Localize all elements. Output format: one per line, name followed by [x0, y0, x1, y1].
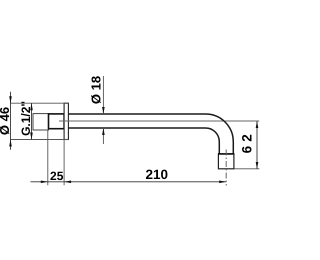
dimension 62 extension line bottom: [235, 168, 260, 170]
dimension 62 line with inside arrows: [256, 121, 258, 169]
dimension Ø46 line with outside arrows: [10, 92, 12, 150]
arrow at 25 left (outside, pointing right): [41, 181, 48, 184]
end cap centerline: [225, 150, 227, 186]
svg-text:210: 210: [146, 167, 169, 182]
label Ø18 leader with arrow: [102, 76, 104, 114]
svg-text:Ø 18: Ø 18: [89, 76, 104, 104]
dimension G1/2 line with inside arrows: [31, 103, 33, 139]
svg-text:25: 25: [50, 169, 64, 183]
end cap: [218, 154, 234, 169]
shower arm tube outer line: [68, 114, 233, 154]
dimension 25/210 shared line: [31, 181, 227, 183]
wall nipple thread G1/2: [33, 114, 49, 130]
arm base block: [49, 114, 65, 129]
shower arm tube inner line: [68, 128, 219, 154]
wall flange plate: [64, 103, 68, 139]
dimension Ø46 extension lines: [11, 102, 69, 104]
tube centerline: [59, 120, 259, 122]
svg-text:62: 62: [239, 130, 254, 153]
dimension 25 extension lines: [47, 130, 49, 186]
arrow at 210 right (pointing right): [219, 181, 226, 184]
svg-text:G.1/2": G.1/2": [19, 101, 33, 136]
arrow at 25/210 boundary (pointing left): [64, 181, 71, 184]
